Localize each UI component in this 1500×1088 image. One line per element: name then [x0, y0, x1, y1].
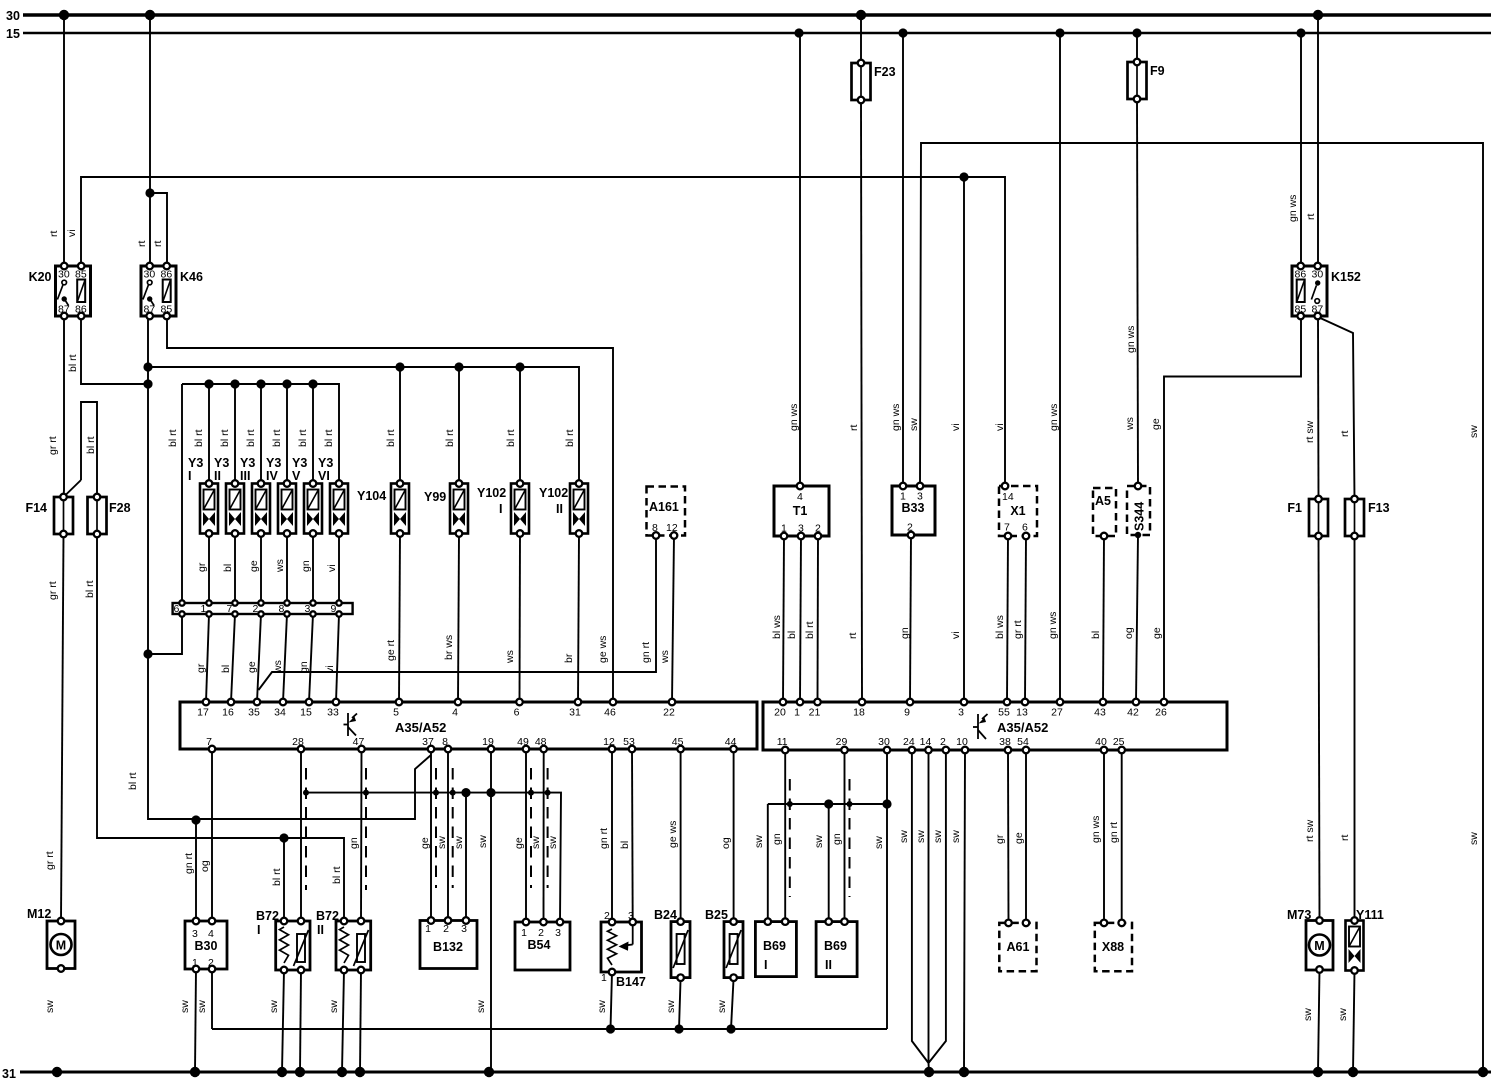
wire T1-3 to pin1 [800, 536, 801, 702]
valve Y3 III [252, 484, 270, 534]
svg-text:bl rt: bl rt [127, 772, 139, 790]
svg-text:gn ws: gn ws [788, 404, 800, 431]
svg-text:K20: K20 [29, 270, 52, 284]
svg-text:rt: rt [1339, 835, 1351, 841]
svg-text:X88: X88 [1102, 940, 1124, 954]
wire A161-12 to pin22 [672, 536, 674, 703]
svg-text:rt: rt [848, 425, 860, 431]
svg-text:Y111: Y111 [1356, 908, 1384, 922]
svg-text:F13: F13 [1368, 501, 1390, 515]
svg-text:31: 31 [2, 1067, 16, 1081]
svg-text:37: 37 [422, 736, 434, 748]
wire B24 to y1029 bus [679, 978, 681, 1029]
wire B25 to y1029 bus [731, 978, 734, 1029]
diagnosis arrow symbol left [344, 713, 358, 736]
wire B72-I left to bus31 [282, 970, 284, 1072]
svg-text:gn ws: gn ws [1287, 195, 1299, 222]
svg-text:bl: bl [220, 665, 232, 673]
svg-text:ws: ws [504, 650, 516, 664]
svg-text:45: 45 [672, 736, 684, 748]
svg-text:bl rt: bl rt [167, 429, 179, 447]
svg-text:og: og [1123, 627, 1135, 639]
svg-text:ge: ge [419, 837, 431, 849]
svg-text:og: og [199, 860, 211, 872]
svg-text:30: 30 [878, 736, 890, 748]
svg-text:rt: rt [1305, 214, 1317, 220]
svg-text:bl: bl [786, 631, 798, 639]
shield dashed B72-I [305, 768, 307, 890]
svg-text:8: 8 [442, 736, 448, 748]
shield dashed B132-2 [452, 768, 454, 888]
svg-text:sw: sw [915, 830, 927, 843]
fuse F28 [88, 497, 107, 534]
svg-text:38: 38 [999, 736, 1011, 748]
svg-text:bl rt: bl rt [323, 429, 335, 447]
svg-text:2: 2 [940, 736, 946, 748]
svg-text:sw: sw [898, 830, 910, 843]
svg-text:gr: gr [994, 834, 1006, 844]
wire pin24 funnel [912, 750, 929, 1063]
svg-text:5: 5 [393, 707, 399, 719]
svg-text:ws: ws [1124, 417, 1136, 431]
bus 30 [23, 13, 1491, 16]
ECU box A35/A52 (right) [763, 702, 1227, 750]
svg-text:22: 22 [663, 707, 675, 719]
svg-text:VI: VI [318, 469, 330, 483]
svg-text:bl rt: bl rt [505, 429, 517, 447]
sensor B72 II [336, 921, 371, 970]
svg-text:15: 15 [300, 707, 312, 719]
svg-text:gn: gn [298, 661, 310, 673]
wire y367 to Y99 [458, 367, 460, 484]
svg-text:Y102: Y102 [539, 486, 568, 500]
svg-text:54: 54 [1017, 736, 1029, 748]
svg-text:rt: rt [847, 633, 859, 639]
wire Y99 to pin4 [458, 534, 459, 703]
wire B72-I right to bus31 [300, 970, 301, 1072]
wire K152-86 to bus15 [1300, 33, 1302, 266]
svg-text:B33: B33 [902, 501, 925, 515]
wire B69-II left [828, 804, 830, 922]
wire term1 to pin17 [206, 614, 209, 702]
wire Y3-I to term1 [208, 534, 210, 604]
svg-text:sw: sw [950, 830, 962, 843]
svg-text:gr rt: gr rt [47, 581, 59, 600]
svg-text:A35/A52: A35/A52 [395, 720, 446, 735]
svg-text:ws: ws [272, 660, 284, 674]
svg-text:sw: sw [179, 1000, 191, 1013]
svg-text:F28: F28 [109, 501, 131, 515]
shield dashed B54-1 [530, 768, 532, 888]
svg-text:bl rt: bl rt [804, 621, 816, 639]
wire B30-3 to y819 node [195, 820, 197, 921]
svg-text:1: 1 [794, 707, 800, 719]
svg-text:bl: bl [1090, 631, 1102, 639]
wire pin25 to X88 [1121, 750, 1123, 923]
svg-text:gn ws: gn ws [1090, 816, 1102, 843]
wire B30-4 to pin7 [211, 749, 213, 921]
wire ground bus y1029 [212, 1028, 887, 1030]
knock sensor B69 II [816, 922, 857, 977]
switch S344 [1127, 486, 1150, 535]
svg-text:9: 9 [331, 603, 337, 615]
wire B72-I feed [283, 838, 285, 921]
svg-text:34: 34 [274, 707, 286, 719]
svg-text:rt sw: rt sw [1304, 819, 1316, 842]
svg-text:43: 43 [1094, 707, 1106, 719]
shield dashed B54-2 [547, 768, 549, 888]
svg-text:sw: sw [753, 835, 765, 848]
svg-text:I: I [499, 502, 502, 516]
wire term8 to pin34 [283, 614, 287, 702]
svg-text:gn: gn [348, 837, 360, 849]
svg-text:ge ws: ge ws [597, 636, 609, 663]
connector X1 [999, 486, 1037, 536]
diagnosis arrow symbol right [973, 714, 988, 739]
motor M12 [47, 921, 75, 969]
svg-text:12: 12 [603, 736, 615, 748]
svg-text:2: 2 [253, 603, 259, 615]
wire Y104 to pin5 [399, 534, 400, 703]
svg-text:bl rt: bl rt [84, 580, 96, 598]
svg-text:II: II [825, 958, 832, 972]
svg-text:17: 17 [197, 707, 209, 719]
svg-text:bl rt: bl rt [271, 868, 283, 886]
wire pin14 funnel [928, 750, 931, 1072]
svg-text:rt: rt [152, 241, 164, 247]
wire pin47 to B72-II [360, 749, 363, 921]
wire B132-3 to shield bus [465, 793, 467, 921]
wire bus30 to K46-30 [149, 15, 151, 266]
wire vi branch to A35 pin3 [963, 177, 965, 702]
svg-text:sw: sw [908, 418, 920, 431]
svg-text:gn ws: gn ws [1048, 404, 1060, 431]
valve Y102 I [511, 484, 529, 534]
svg-text:B54: B54 [528, 938, 551, 952]
svg-text:M73: M73 [1287, 908, 1311, 922]
svg-text:A35/A52: A35/A52 [997, 720, 1048, 735]
svg-text:bl rt: bl rt [444, 429, 456, 447]
svg-text:sw: sw [196, 1000, 208, 1013]
svg-text:B69: B69 [824, 939, 847, 953]
svg-text:bl rt: bl rt [297, 429, 309, 447]
svg-text:K46: K46 [180, 270, 203, 284]
fuse F1 [1309, 499, 1328, 536]
svg-text:gn: gn [300, 560, 312, 572]
svg-text:1: 1 [521, 927, 527, 939]
svg-text:20: 20 [774, 707, 786, 719]
wire F14 to M12 [61, 534, 64, 921]
wire B33-1 to bus15 [902, 33, 904, 486]
connector A61 [999, 923, 1036, 971]
svg-text:A161: A161 [649, 500, 679, 514]
svg-text:Y3: Y3 [292, 456, 307, 470]
fuse F9 [1128, 62, 1147, 99]
svg-text:og: og [720, 837, 732, 849]
svg-text:sw: sw [716, 1000, 728, 1013]
svg-text:31: 31 [569, 707, 581, 719]
wire K152-87 to F13 [1318, 317, 1355, 499]
sensor B33 [892, 486, 935, 535]
svg-text:F1: F1 [1287, 501, 1302, 515]
svg-text:sw: sw [436, 836, 448, 849]
knock sensor B69 I [755, 922, 796, 977]
svg-text:49: 49 [517, 736, 529, 748]
svg-text:B147: B147 [616, 975, 646, 989]
valve Y104 [391, 484, 409, 534]
svg-text:28: 28 [292, 736, 304, 748]
wire gn-rt from pin35 node to A161-8 [259, 536, 657, 691]
svg-text:F23: F23 [874, 65, 896, 79]
svg-text:K152: K152 [1331, 270, 1361, 284]
svg-text:sw: sw [475, 1000, 487, 1013]
svg-text:46: 46 [604, 707, 616, 719]
svg-text:3: 3 [917, 491, 923, 503]
svg-text:bl: bl [619, 841, 631, 849]
svg-text:X1: X1 [1010, 504, 1025, 518]
valve Y3 I [200, 484, 218, 534]
svg-text:vi: vi [324, 665, 336, 673]
fuse F23 [852, 63, 871, 100]
svg-text:I: I [764, 958, 767, 972]
wire B72-II left to bus31 [342, 970, 344, 1072]
svg-text:sw: sw [477, 835, 489, 848]
wire B147-1 to y1029 bus [611, 972, 613, 1029]
svg-text:Y102: Y102 [477, 486, 506, 500]
svg-text:sw: sw [932, 830, 944, 843]
relay K20 [56, 266, 91, 316]
svg-text:sw: sw [530, 836, 542, 849]
wire B72-II right to bus31 [360, 970, 361, 1072]
wire F23 to bus30 [860, 15, 862, 63]
svg-text:27: 27 [1051, 707, 1063, 719]
valve Y3 VI [330, 484, 348, 534]
svg-text:bl rt: bl rt [271, 429, 283, 447]
wire X1-7 to pin55 [1007, 536, 1008, 702]
svg-text:55: 55 [998, 707, 1010, 719]
svg-text:sw: sw [813, 835, 825, 848]
wire K152-87 to F1 [1317, 316, 1320, 499]
svg-text:gn ws: gn ws [890, 404, 902, 431]
wire pin37 to B132-1 [430, 749, 432, 921]
svg-text:gr: gr [195, 663, 207, 673]
connector A5 [1093, 488, 1116, 536]
svg-text:3: 3 [305, 603, 311, 615]
svg-text:gn: gn [899, 627, 911, 639]
svg-text:bl rt: bl rt [331, 866, 343, 884]
svg-text:3: 3 [958, 707, 964, 719]
svg-text:gn rt: gn rt [640, 642, 652, 663]
svg-text:3: 3 [192, 928, 198, 940]
svg-text:IV: IV [266, 469, 278, 483]
wire pin28 to B72-I [300, 749, 302, 921]
wire Y102-II to pin31 [578, 534, 579, 703]
wire pin44 to B25 [733, 749, 735, 922]
svg-text:Y3: Y3 [240, 456, 255, 470]
svg-text:br: br [563, 653, 575, 663]
svg-text:sw: sw [268, 1000, 280, 1013]
svg-text:gn: gn [831, 833, 843, 845]
svg-text:vi: vi [950, 631, 962, 639]
svg-text:br ws: br ws [443, 635, 455, 660]
svg-text:1: 1 [601, 972, 607, 984]
valve Y102 II [570, 484, 588, 534]
ECU box A35/A52 (left) [180, 702, 757, 749]
connector X88 [1095, 923, 1132, 971]
svg-text:33: 33 [327, 707, 339, 719]
svg-text:B25: B25 [705, 908, 728, 922]
svg-text:ge: ge [248, 560, 260, 572]
svg-text:bl ws: bl ws [994, 615, 1006, 639]
junction dots [59, 10, 69, 20]
svg-text:15: 15 [6, 27, 20, 41]
svg-text:vi: vi [326, 564, 338, 572]
svg-text:sw: sw [1337, 1008, 1349, 1021]
wire shield bus y792 [306, 793, 561, 922]
fuse F14 [54, 497, 73, 534]
wire Y111 to bus31 [1353, 971, 1355, 1073]
svg-text:gn ws: gn ws [1047, 612, 1059, 639]
svg-text:sw: sw [665, 1000, 677, 1013]
svg-text:9: 9 [904, 707, 910, 719]
valve Y3 II [226, 484, 244, 534]
svg-text:53: 53 [623, 736, 635, 748]
wire Y3-VI to term9 [338, 534, 340, 604]
wire K46-87 down [148, 316, 431, 819]
svg-text:A5: A5 [1095, 494, 1111, 508]
wire K20-86 to K46-87 node [81, 316, 148, 384]
svg-text:A61: A61 [1007, 940, 1030, 954]
wire y384 to terminal6 top [181, 384, 183, 603]
svg-text:sw: sw [44, 1000, 56, 1013]
svg-text:ge: ge [1151, 627, 1163, 639]
svg-text:14: 14 [920, 736, 932, 748]
wire pin2 funnel [929, 750, 946, 1063]
svg-text:gn rt: gn rt [1108, 822, 1120, 843]
wire bridge diagonal to F14 [64, 480, 82, 497]
svg-text:II: II [214, 469, 221, 483]
svg-text:11: 11 [777, 736, 788, 748]
svg-text:gn rt: gn rt [598, 828, 610, 849]
svg-text:bl rt: bl rt [564, 429, 576, 447]
potentiometer B147 [601, 922, 642, 972]
shield dashed B69-II [849, 779, 851, 897]
wire y367 to Y104 [399, 367, 401, 484]
wire A5 to pin43 [1103, 536, 1104, 702]
svg-text:I: I [188, 469, 191, 483]
svg-text:vi: vi [66, 229, 78, 237]
valve Y111 [1346, 921, 1364, 971]
connector A161 [647, 487, 686, 536]
svg-text:24: 24 [903, 736, 915, 748]
wire term7 to pin16 [231, 614, 235, 702]
svg-text:6: 6 [514, 707, 520, 719]
svg-text:bl rt: bl rt [219, 429, 231, 447]
svg-text:bl rt: bl rt [67, 354, 79, 372]
svg-text:18: 18 [853, 707, 865, 719]
svg-text:Y104: Y104 [357, 489, 386, 503]
svg-text:bl rt: bl rt [85, 436, 97, 454]
sensor B25 [724, 922, 743, 978]
wire Y102-I to pin6 [519, 534, 522, 703]
svg-text:35: 35 [248, 707, 260, 719]
wire Y3-V to term3 [312, 534, 314, 604]
svg-text:47: 47 [353, 736, 365, 748]
wire K152-85 ge to pin26 [1164, 316, 1301, 702]
relay K152 [1292, 266, 1327, 316]
svg-text:44: 44 [725, 736, 737, 748]
svg-text:T1: T1 [793, 504, 808, 518]
svg-text:Y3: Y3 [214, 456, 229, 470]
wire Y3-IV to term8 [286, 534, 288, 604]
wire term3 to pin15 [309, 614, 313, 702]
wire Y3-III to term2 [260, 534, 262, 604]
relay K46 [141, 266, 176, 316]
svg-text:vi: vi [994, 423, 1006, 431]
sensor B24 [671, 922, 690, 978]
wire node to terminal6 bottom [148, 614, 182, 654]
svg-text:B30: B30 [195, 939, 218, 953]
wire K20-87 through F14 to M12 [63, 316, 66, 497]
sensor B72 I [276, 921, 310, 970]
ECU pins top row [203, 699, 210, 706]
svg-text:gr rt: gr rt [1012, 620, 1024, 639]
svg-text:rt: rt [48, 231, 60, 237]
fuse F13 [1345, 499, 1364, 536]
bus 15 [23, 32, 1491, 35]
bus 31 (ground) [20, 1071, 1491, 1074]
svg-text:ws: ws [274, 559, 286, 573]
svg-text:gn rt: gn rt [183, 853, 195, 874]
wire y384 to Y3-III [260, 384, 262, 484]
wire Y3-II to term7 [234, 534, 236, 604]
wire bl-rt bus y367 [148, 367, 579, 484]
wire F9 to S344 [1137, 99, 1138, 486]
wire T1-4 to bus15 [799, 33, 801, 486]
svg-text:7: 7 [227, 603, 233, 615]
svg-text:Y3: Y3 [318, 456, 333, 470]
wire gn-ws bus15 to pin27 [1059, 33, 1061, 702]
wire S344 to pin42 [1136, 535, 1138, 702]
wire pin8 to B132-2 [447, 749, 449, 921]
wire pin49 to B54-1 [525, 749, 527, 922]
svg-text:ge ws: ge ws [667, 821, 679, 848]
svg-text:ge: ge [246, 661, 258, 673]
svg-text:4: 4 [797, 491, 803, 503]
wire term9 to pin33 [336, 614, 339, 702]
svg-text:ws: ws [659, 650, 671, 664]
svg-text:III: III [240, 469, 250, 483]
svg-text:B132: B132 [433, 940, 463, 954]
wire y384 to Y3-IV [286, 384, 288, 484]
wire M73 to bus31 [1318, 970, 1320, 1073]
svg-text:16: 16 [222, 707, 234, 719]
svg-text:gr rt: gr rt [44, 851, 56, 870]
svg-text:gn ws: gn ws [1125, 326, 1137, 353]
svg-text:sw: sw [453, 836, 465, 849]
svg-text:40: 40 [1095, 736, 1107, 748]
svg-text:7: 7 [206, 736, 212, 748]
wire F1 to M73 [1319, 536, 1320, 921]
svg-text:1: 1 [900, 491, 906, 503]
svg-text:S344: S344 [1133, 502, 1147, 531]
wire pin38 to A61 [1007, 750, 1010, 923]
wire B69-I left [767, 804, 769, 922]
svg-text:sw: sw [1468, 425, 1480, 438]
svg-text:ge: ge [1013, 832, 1025, 844]
motor M73 [1306, 921, 1333, 971]
svg-text:sw: sw [1468, 832, 1480, 845]
